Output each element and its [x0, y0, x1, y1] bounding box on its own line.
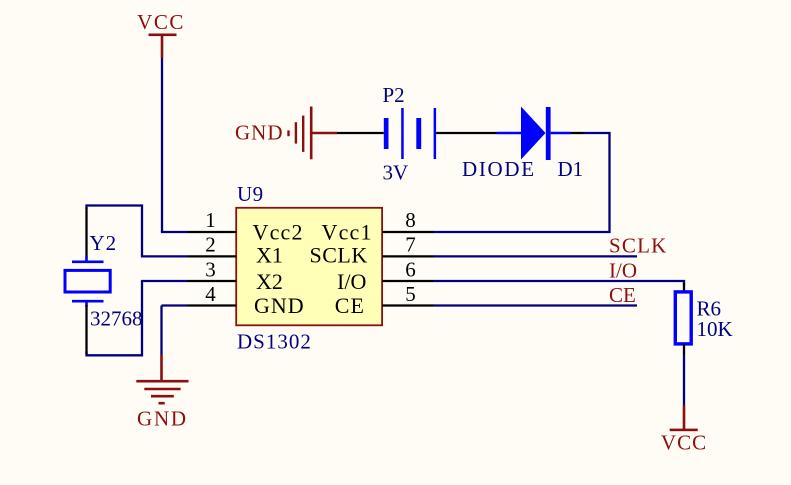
wire crystal top loop — [87, 206, 143, 257]
pin 4 (GND) — [188, 282, 237, 306]
svg-text:4: 4 — [205, 282, 216, 306]
wire X1 net — [141, 255, 188, 257]
svg-text:GND: GND — [254, 293, 305, 318]
ground GND (battery) — [235, 107, 337, 160]
wire ground to battery — [337, 132, 384, 134]
svg-text:CE: CE — [609, 283, 636, 307]
wire CE net — [434, 304, 638, 306]
svg-text:10K: 10K — [697, 317, 733, 341]
svg-text:5: 5 — [405, 282, 416, 306]
svg-text:CE: CE — [335, 293, 365, 318]
svg-text:Y2: Y2 — [90, 231, 118, 255]
svg-text:3: 3 — [205, 257, 216, 281]
wire I/O net — [434, 281, 685, 285]
svg-text:32768: 32768 — [90, 307, 143, 331]
svg-text:2: 2 — [205, 233, 216, 257]
wire resistor to VCC — [683, 355, 685, 405]
IC U9 body (DS1302) — [236, 208, 382, 325]
wire SCLK net — [434, 255, 638, 257]
wire X2 net — [141, 280, 188, 282]
wire diode to pin 8 — [434, 133, 610, 232]
crystal Y2 — [65, 208, 110, 355]
pin 2 (X1) — [188, 233, 237, 257]
pin 5 (CE) — [382, 282, 433, 306]
svg-text:DS1302: DS1302 — [237, 330, 312, 354]
pin 1 (Vcc2) — [188, 208, 237, 232]
wire GND net (pin 4) — [162, 304, 188, 306]
svg-text:P2: P2 — [383, 83, 405, 107]
svg-text:I/O: I/O — [337, 269, 366, 294]
svg-text:U9: U9 — [237, 182, 264, 206]
pin 8 (Vcc1) — [382, 208, 433, 232]
svg-text:SCLK: SCLK — [609, 234, 667, 258]
pin 6 (I/O) — [382, 257, 433, 281]
svg-text:X2: X2 — [256, 269, 283, 294]
svg-text:SCLK: SCLK — [310, 243, 368, 268]
svg-text:8: 8 — [405, 208, 416, 232]
power symbol VCC (bottom) — [661, 405, 707, 455]
wire VCC to pin 1 — [161, 58, 163, 232]
resistor R6 — [675, 283, 691, 355]
svg-text:DIODE: DIODE — [462, 157, 536, 181]
pin 7 (SCLK) — [382, 233, 433, 257]
wire battery to diode — [436, 132, 496, 134]
svg-text:6: 6 — [405, 257, 416, 281]
svg-text:Vcc2: Vcc2 — [253, 220, 304, 245]
ground GND (bottom) — [136, 355, 188, 431]
svg-text:GND: GND — [137, 407, 188, 431]
svg-text:VCC: VCC — [137, 10, 185, 34]
svg-text:1: 1 — [205, 208, 216, 232]
wire crystal bottom loop — [87, 281, 143, 355]
svg-text:X1: X1 — [256, 243, 283, 268]
svg-text:7: 7 — [405, 233, 416, 257]
diode D1 — [497, 107, 572, 161]
battery P2 — [384, 108, 436, 159]
power symbol VCC (top) — [137, 10, 185, 58]
svg-text:I/O: I/O — [609, 259, 637, 283]
svg-text:3V: 3V — [383, 161, 409, 185]
svg-text:VCC: VCC — [661, 431, 707, 455]
svg-text:D1: D1 — [558, 157, 584, 181]
wire pin4 down — [160, 306, 162, 355]
wire pin1 net — [161, 231, 188, 233]
pin 3 (X2) — [188, 257, 237, 281]
wire diode stub — [571, 132, 584, 134]
svg-text:GND: GND — [235, 121, 284, 145]
svg-text:Vcc1: Vcc1 — [322, 220, 373, 245]
